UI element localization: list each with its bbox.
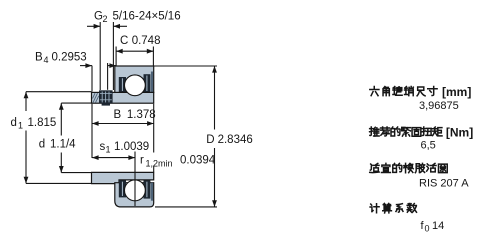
svg-text:1.1/4: 1.1/4: [50, 139, 76, 151]
seal left (bottom section): [119, 180, 126, 197]
svg-text:1.378: 1.378: [127, 109, 156, 121]
seal left (top section): [119, 77, 126, 92]
bearing outer ring (top section): [115, 66, 154, 93]
dimension C: [116, 47, 153, 67]
ball (top section): [124, 75, 145, 96]
dimension d1: [24, 92, 92, 184]
svg-text:C: C: [120, 35, 128, 47]
dimension D: [154, 66, 217, 207]
svg-text:d: d: [11, 117, 17, 129]
svg-text:2.8346: 2.8346: [218, 134, 253, 146]
dimension d: [59, 103, 92, 173]
svg-text:1,2min: 1,2min: [146, 159, 173, 169]
svg-text:3,96875: 3,96875: [419, 100, 459, 112]
svg-text:0.0394: 0.0394: [180, 155, 216, 167]
svg-text:B: B: [114, 109, 122, 121]
svg-text:14: 14: [432, 220, 444, 232]
svg-text:5/16-24×5/16: 5/16-24×5/16: [113, 11, 181, 23]
svg-text:RIS 207 A: RIS 207 A: [419, 177, 469, 189]
dimension G2 leader lines: [87, 22, 127, 90]
svg-text:r: r: [140, 155, 144, 167]
ball (bottom section): [124, 180, 145, 201]
svg-text:6,5: 6,5: [421, 140, 436, 152]
dimension s1: [92, 152, 135, 207]
svg-text:2: 2: [103, 14, 108, 24]
set screw G2: [99, 90, 113, 105]
svg-text:1.0039: 1.0039: [114, 141, 149, 153]
dimension B4: [80, 63, 116, 92]
svg-text:0: 0: [425, 224, 430, 234]
inner ring hatch (top left): [93, 93, 99, 102]
svg-text:[mm]: [mm]: [442, 85, 471, 99]
svg-text:0.2953: 0.2953: [52, 51, 87, 63]
spec heading: recommended tightening torque [Nm]: [370, 125, 474, 139]
inner ring (top section): [92, 92, 154, 103]
svg-text:4: 4: [44, 55, 49, 65]
svg-text:1: 1: [106, 145, 111, 155]
svg-text:1: 1: [18, 120, 23, 130]
svg-text:1.815: 1.815: [28, 117, 57, 129]
svg-text:d: d: [39, 139, 45, 151]
bearing outer ring (bottom section): [115, 183, 154, 207]
svg-text:0.748: 0.748: [132, 35, 161, 47]
svg-text:D: D: [206, 134, 214, 146]
spec heading: suitable rubber ring: [370, 163, 447, 172]
seal right (bottom section): [144, 180, 154, 200]
spec heading: hexagon key size [mm]: [370, 85, 472, 99]
svg-text:B: B: [35, 51, 43, 63]
svg-text:[Nm]: [Nm]: [446, 125, 473, 139]
dimension B: [92, 104, 154, 172]
spec heading: calculation factors: [370, 203, 416, 213]
inner ring (bottom section): [92, 172, 154, 183]
seal right (top section): [144, 72, 154, 93]
